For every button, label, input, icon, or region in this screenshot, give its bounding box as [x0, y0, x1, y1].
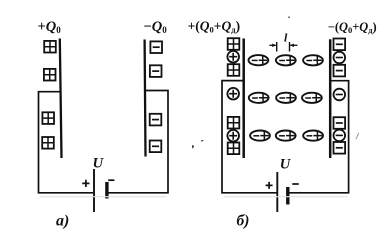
svg-text:б): б)	[237, 213, 250, 230]
svg-text:a): a)	[56, 213, 69, 230]
svg-text:U: U	[280, 156, 292, 172]
svg-text:U: U	[93, 155, 105, 171]
